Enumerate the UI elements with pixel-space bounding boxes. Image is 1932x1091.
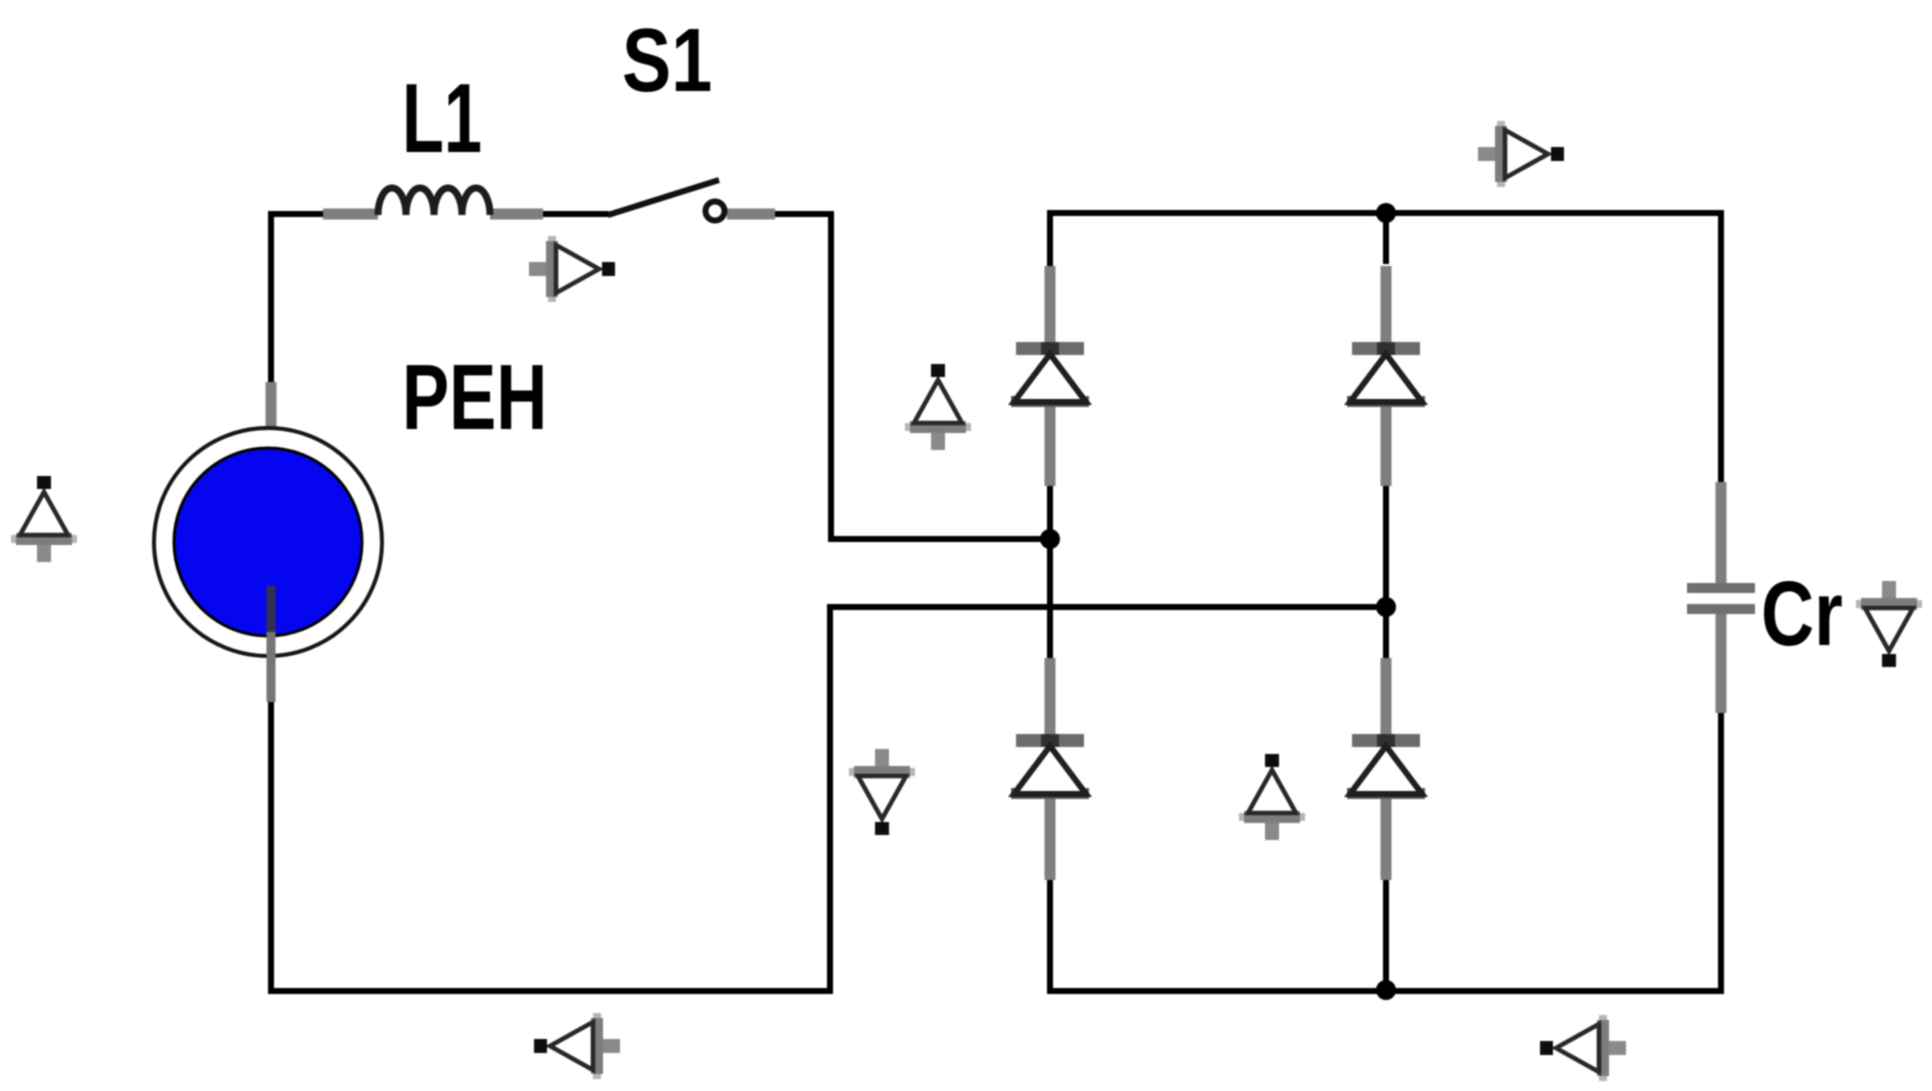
svg-text:S1: S1 — [622, 11, 712, 111]
svg-text:PEH: PEH — [402, 345, 547, 450]
svg-text:Cr: Cr — [1761, 562, 1843, 665]
svg-text:L1: L1 — [402, 63, 482, 173]
